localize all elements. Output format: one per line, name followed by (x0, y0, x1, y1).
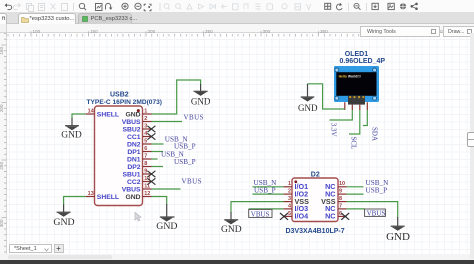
svg-text:I/O4: I/O4 (295, 212, 309, 221)
svg-text:9: 9 (144, 168, 147, 174)
wire D2 pin8 to ground (347, 202, 398, 218)
wire D2 pin10 (347, 186, 364, 188)
svg-text:5: 5 (288, 211, 291, 217)
svg-text:13: 13 (88, 191, 94, 197)
D2 right pin names (321, 182, 336, 221)
svg-text:GND: GND (156, 221, 177, 232)
wire USB2 pin6 (152, 151, 164, 153)
svg-text:SBU1: SBU1 (122, 171, 140, 178)
D2 left pin numbers (288, 181, 292, 217)
wire D2 pin9 (347, 193, 364, 195)
svg-text:DP2: DP2 (127, 164, 140, 171)
svg-text:NC: NC (325, 212, 335, 221)
D2 right pin numbers (339, 181, 345, 217)
svg-text:VBUS: VBUS (122, 119, 141, 126)
no-connect X at USB2 pin10 (147, 178, 155, 184)
wire D2 pin4 to VBUS port (249, 208, 284, 210)
svg-text:GND: GND (125, 194, 140, 201)
diode array D2 pin-1 marker dot (294, 180, 297, 183)
no-connect X at USB2 pin3 (147, 126, 155, 132)
wire USB2 pin2 to VBUS (152, 121, 183, 123)
OLED1 screw hole top-right (373, 68, 377, 72)
svg-text:200: 200 (148, 29, 156, 34)
svg-text:SBU2: SBU2 (122, 126, 140, 133)
ground flag at USB2 pin14 (65, 118, 79, 130)
svg-text:9: 9 (339, 189, 342, 195)
D2 right pin stubs 10-6 (338, 187, 347, 217)
svg-text:2: 2 (288, 189, 291, 195)
mouse cursor (135, 213, 141, 222)
svg-text:0.96OLED_4P: 0.96OLED_4P (340, 58, 386, 65)
svg-text:Hello World!!!: Hello World!!! (339, 75, 361, 79)
svg-text:300: 300 (263, 29, 271, 34)
svg-text:GND: GND (386, 231, 410, 243)
svg-text:SHELL: SHELL (97, 194, 119, 201)
no-connect X at D2 pin6 (341, 213, 349, 220)
svg-text:VBUS: VBUS (367, 210, 386, 218)
svg-text:200: 200 (0, 104, 4, 112)
wire OLED1 pin2 to 3.3V (330, 110, 353, 120)
svg-text:GND: GND (53, 217, 74, 228)
svg-text:150: 150 (0, 47, 4, 55)
wire USB2 pin12 to ground (152, 197, 167, 205)
svg-text:GND: GND (298, 103, 318, 113)
svg-text:VBUS: VBUS (184, 114, 204, 122)
D2 left pin names (295, 182, 310, 221)
connector USB2 pin-1 marker dot (137, 109, 140, 112)
USB2 SHELL pin names (97, 111, 119, 201)
ground flag at D2 pin3 (224, 212, 238, 224)
svg-text:GND: GND (221, 225, 242, 235)
wire USB2 pin8 (152, 166, 164, 168)
svg-text:14: 14 (88, 108, 95, 114)
svg-text:USB2: USB2 (110, 92, 129, 99)
svg-text:8: 8 (144, 161, 147, 167)
USB2 pin names (122, 111, 141, 201)
svg-text:D3V3XA4B10LP-7: D3V3XA4B10LP-7 (286, 228, 345, 235)
wire USB2 pin14 to ground (72, 114, 86, 119)
svg-text:2: 2 (144, 116, 147, 122)
no-connect X at D2 pin5 (280, 213, 288, 220)
svg-text:VBUS: VBUS (182, 177, 202, 185)
svg-text:USB_P: USB_P (174, 158, 196, 166)
no-connect X at USB2 pin9 (147, 171, 155, 177)
wire USB2 pin7 (152, 158, 158, 160)
svg-text:CC1: CC1 (127, 134, 141, 141)
OLED1 connector block (348, 96, 365, 105)
ground flag at USB2 pin1 net (194, 84, 208, 96)
svg-text:3: 3 (144, 123, 147, 129)
wire OLED1 pin3 to SCL (349, 110, 360, 134)
svg-text:5: 5 (144, 138, 147, 144)
USB2 right pin numbers 1-12 (144, 108, 150, 196)
USB2 right pin stubs 1-12 (143, 114, 152, 197)
svg-text:250: 250 (205, 29, 213, 34)
OLED1 screen (336, 72, 376, 96)
svg-text:USB_P: USB_P (254, 186, 276, 194)
wire OLED1 pin1 to ground (308, 84, 345, 109)
connector USB2 body (95, 106, 143, 206)
svg-text:1: 1 (288, 181, 291, 187)
USB2 left pin stubs 14,13 (86, 114, 95, 197)
ground flag at D2 pin8 (391, 217, 405, 230)
wire D2 pin7 to VBUS port (347, 208, 365, 210)
wire D2 pin1 (252, 186, 283, 188)
svg-text:10: 10 (339, 181, 345, 187)
svg-text:100: 100 (33, 29, 41, 34)
no-connect X at USB2 pin4 (147, 133, 155, 139)
svg-text:150: 150 (90, 29, 98, 34)
svg-text:SHELL: SHELL (97, 111, 119, 118)
svg-text:DN2: DN2 (127, 141, 141, 148)
svg-text:3.3V: 3.3V (330, 123, 338, 137)
ground flag at USB2 pin13 (57, 204, 71, 216)
svg-text:VBUS: VBUS (251, 210, 270, 218)
svg-text:SCL: SCL (349, 137, 357, 150)
svg-text:GND: GND (125, 111, 140, 118)
ground flag at USB2 pin12 (160, 204, 175, 221)
svg-text:1: 1 (144, 108, 147, 114)
wire OLED1 pin4 to SDA (363, 110, 367, 126)
svg-text:350: 350 (320, 29, 328, 34)
OLED1 screw hole top-left (335, 68, 339, 72)
svg-text:USB_P: USB_P (174, 143, 196, 151)
svg-text:GND: GND (191, 97, 211, 107)
svg-text:GND: GND (61, 131, 82, 141)
OLED1 pin stubs 1-4 (345, 102, 368, 110)
svg-text:7: 7 (144, 153, 147, 159)
wire D2 pin2 (252, 193, 283, 195)
wire USB2 pin5 (152, 143, 164, 145)
svg-text:250: 250 (0, 162, 4, 170)
svg-text:TYPE-C 16PIN 2MD(073): TYPE-C 16PIN 2MD(073) (87, 99, 162, 106)
svg-text:DP1: DP1 (127, 149, 140, 156)
svg-text:8: 8 (339, 196, 342, 202)
svg-text:VBUS: VBUS (122, 186, 141, 193)
OLED1 board body (334, 66, 379, 102)
diode array D2 body (292, 178, 338, 222)
ground flag at OLED1 pin1 (301, 84, 315, 101)
USB2 left pin numbers 14,13 (88, 108, 95, 196)
wire USB2 pin11 to VBUS (152, 188, 181, 190)
wire USB2 pin1 to top ground (152, 80, 201, 114)
OLED1 screw hole bottom-left (335, 96, 339, 100)
svg-text:12: 12 (144, 191, 150, 197)
net port VBUS (D2 right) (365, 209, 386, 218)
svg-text:CC2: CC2 (127, 179, 141, 186)
OLED1 screw hole bottom-right (373, 96, 377, 100)
svg-text:7: 7 (339, 203, 342, 209)
svg-text:USB_P: USB_P (366, 186, 388, 194)
D2 left pin stubs 1-5 (283, 187, 292, 217)
OLED1 connector pads (349, 96, 364, 98)
svg-text:300: 300 (0, 219, 4, 227)
svg-text:DN1: DN1 (127, 156, 141, 163)
wire USB2 pin13 to ground (64, 197, 86, 205)
net port VBUS (D2 left) (249, 209, 272, 218)
wire D2 pin3 to ground (231, 202, 283, 213)
svg-text:SDA: SDA (370, 127, 378, 141)
svg-text:6: 6 (144, 146, 147, 152)
svg-text:3: 3 (288, 196, 291, 202)
